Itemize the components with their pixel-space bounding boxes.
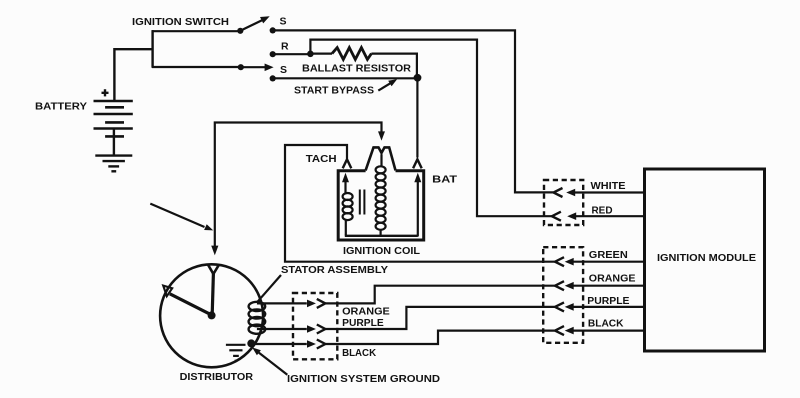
ignition coil tower [366,147,396,170]
battery plus sign [102,89,109,96]
wire green module [573,261,646,263]
svg-text:START BYPASS: START BYPASS [294,85,374,97]
distributor arm end marker [163,286,172,297]
wire HT lead coil tower to distributor rotor [215,123,382,247]
svg-text:PURPLE: PURPLE [587,295,629,307]
label R [281,40,289,52]
chevron red row [552,212,561,221]
ground ignition system symbol [226,345,246,361]
arrowhead white row [566,189,575,197]
svg-text:ORANGE: ORANGE [342,306,390,318]
node dot on lower feed [238,64,244,70]
label BALLAST RESISTOR [302,63,411,75]
wire ground dot to black row [251,343,306,345]
arrowhead purple row [565,303,574,311]
connector upper dashed box [544,180,583,225]
wire junction down to coil BAT [416,78,418,158]
svg-text:TACH: TACH [306,153,337,165]
chevron black row [555,326,564,335]
label ORANGE module [589,273,636,285]
svg-text:IGNITION SYSTEM GROUND: IGNITION SYSTEM GROUND [287,373,440,385]
node R junction dot [307,51,314,58]
wire start bypass [273,77,418,79]
svg-text:S: S [280,15,287,27]
wire ignition switch top feed [152,30,238,32]
coil internal bottom rail [345,235,418,237]
label IGNITION COIL [343,245,421,257]
label DISTRIBUTOR [180,371,254,383]
label BLACK module [588,318,624,330]
label IGNITION SYSTEM GROUND [287,373,440,385]
arrowhead right black row [307,340,316,348]
label ORANGE distributor [342,306,390,318]
svg-text:IGNITION COIL: IGNITION COIL [343,245,421,257]
wire orange distributor to module connector [325,286,554,304]
svg-text:BATTERY: BATTERY [35,101,87,113]
wire red module [575,215,646,217]
svg-text:BALLAST RESISTOR: BALLAST RESISTOR [302,63,411,75]
label BLACK distributor [342,347,376,359]
distributor second arm [170,294,211,315]
ground ignition system dot [247,339,255,347]
svg-text:GREEN: GREEN [589,249,628,261]
label TACH [306,153,337,165]
wire black distributor to module connector [325,331,554,344]
wire R terminal to junction [273,53,311,55]
label RED [592,205,613,217]
svg-text:STATOR ASSEMBLY: STATOR ASSEMBLY [281,264,388,276]
chevron right purple row [317,325,326,334]
distributor rotor arm [212,274,213,315]
resistor ballast lead left [312,52,332,54]
wire orange module [573,285,646,287]
terminal R dot [270,51,276,57]
ignition switch SW1 pivot dot [237,28,243,34]
chevron BAT terminal [413,159,422,168]
distributor rotor fork [208,264,219,274]
label S top [280,15,287,27]
arrowhead red row [567,212,576,220]
coil primary lead with up arrow [342,173,349,236]
node start bypass junction dot [414,74,422,82]
label STATOR ASSEMBLY [281,264,388,276]
coil secondary leads [380,154,383,235]
wire S1 to white connector [273,30,553,192]
coil core lines [360,190,365,215]
svg-text:BAT: BAT [432,173,457,185]
wire lower S feed from battery riser [152,66,239,68]
connector lower dashed box [543,247,583,343]
resistor ballast lead right [371,54,417,77]
battery BAT1 [94,101,133,155]
arrowhead down at distributor [211,246,218,256]
arrow annotation start bypass [378,79,397,91]
chevron right orange row [317,299,326,308]
svg-text:IGNITION MODULE: IGNITION MODULE [657,252,756,264]
coil secondary winding [376,166,386,230]
label GREEN [589,249,628,261]
label WHITE [591,180,626,192]
svg-text:R: R [281,40,289,52]
svg-text:RED: RED [592,205,613,217]
terminal S1 dot [270,27,276,33]
svg-text:WHITE: WHITE [591,180,626,192]
arrowhead right orange row [307,300,316,308]
label S lower [280,64,287,76]
chevron right black row [317,340,326,349]
arrowhead black row [565,327,574,335]
ignition module U1 box [645,169,765,351]
arrow annotation to HT lead [150,204,213,231]
chevron orange row [555,281,564,290]
arrowhead down at coil tower [378,131,385,140]
ignition switch arm arrow [240,16,269,31]
wire black module [573,330,646,332]
chevron white row [554,188,563,197]
chevron TACH terminal [343,159,352,168]
ground battery [95,156,132,172]
svg-text:S: S [280,64,287,76]
wire purple module [573,306,646,308]
svg-text:IGNITION SWITCH: IGNITION SWITCH [132,16,229,28]
leader stator assembly [257,275,281,302]
svg-text:BLACK: BLACK [342,347,376,359]
label BATTERY [35,101,87,113]
arrowhead green row [565,258,574,266]
coil primary winding [343,193,353,220]
label START BYPASS [294,85,374,97]
wire stator bottom to purple row [257,328,307,330]
svg-text:ORANGE: ORANGE [589,273,636,285]
arrow into start terminal S [242,64,274,72]
label IGNITION SWITCH [132,16,229,28]
wire stator top to orange row [257,302,307,304]
label BAT [432,173,457,185]
ignition coil T1 box [338,171,424,240]
distributor center dot [208,311,216,319]
chevron green row [555,257,564,266]
wire coil TACH to green connector [285,145,555,262]
wire R junction to red connector [310,40,551,217]
distributor body circle [160,264,263,367]
svg-text:DISTRIBUTOR: DISTRIBUTOR [180,371,254,383]
label IGNITION MODULE [657,252,756,264]
connector distributor dashed box [293,293,337,359]
arrowhead orange row [565,282,574,290]
svg-text:PURPLE: PURPLE [342,317,384,329]
label PURPLE module [587,295,629,307]
chevron purple row [555,302,564,311]
arrow annotation ignition system ground [252,348,287,375]
wire purple distributor to module connector [325,307,554,329]
terminal S2 dot [270,75,276,81]
svg-text:BLACK: BLACK [588,318,624,330]
coil BAT internal lead with up arrow [414,173,421,237]
wire battery positive to ignition switch feed [114,30,152,100]
arrowhead right purple row [307,325,316,333]
stator pickup coil [249,302,266,334]
wire white module [574,191,646,193]
label PURPLE distributor [342,317,384,329]
resistor ballast zigzag [332,48,371,60]
